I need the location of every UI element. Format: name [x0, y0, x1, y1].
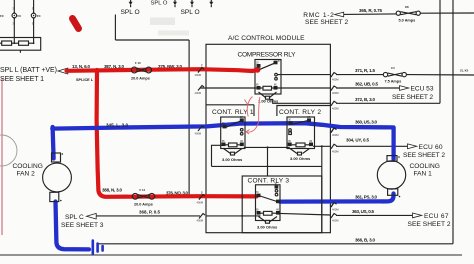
module pin fan relay feed	[199, 195, 205, 200]
resistor R2	[19, 41, 29, 45]
wire connector FC2 to resistor box	[33, 18, 35, 43]
svg-text:F 10: F 10	[135, 61, 141, 65]
inline connector FC1	[12, 13, 17, 18]
relay K3 contact circle 1	[289, 129, 292, 132]
wire SPL C inside module to relay K4 coil	[206, 215, 261, 217]
wire SPL O down to feed	[188, 40, 190, 195]
wire relay2 coil to edge (ECU60 drive)	[313, 145, 330, 147]
relay K1 pin 87	[274, 61, 278, 65]
splice blue marks	[93, 241, 103, 254]
svg-text:21, K5: 21, K5	[460, 69, 469, 73]
wire vertical down module interior	[321, 146, 323, 232]
relay K4 pin 87	[276, 200, 280, 204]
wire blue fan2 bottom to splice	[56, 202, 90, 250]
relay K4 switch blade	[260, 196, 277, 202]
svg-text:ECU 67: ECU 67	[424, 213, 449, 220]
off-page arrow SPL C	[87, 213, 97, 219]
wire from top edge to connector FC1	[13, 0, 15, 13]
junction ground run node	[267, 166, 269, 168]
module pin tick blue right top	[331, 128, 337, 133]
wire fuse C4 off page right	[406, 74, 474, 76]
off-page arrow RMC	[335, 12, 344, 17]
fuse F14	[132, 193, 154, 199]
wire blue relay K4 to fan1 bottom	[280, 194, 394, 202]
wire blue fan2 drop	[53, 127, 54, 159]
wire battery feed red branch to relay K4	[97, 70, 257, 197]
relay K1 box	[255, 60, 281, 95]
relay K2 coil pin 86	[240, 143, 244, 147]
wire SPL O drop vertical	[114, 15, 116, 41]
relay K2 coil pin 85	[222, 143, 226, 147]
relay K4 pin 30	[257, 194, 261, 198]
svg-text:SPL O: SPL O	[151, 0, 168, 6]
module pin coil drive left	[198, 86, 204, 91]
wire coil 85 to module left edge	[200, 87, 257, 89]
svg-text:FAN 1: FAN 1	[414, 171, 433, 178]
module pin tick batt feed	[198, 68, 204, 73]
wire SPL C to module	[96, 215, 200, 217]
module pin 361 blue row	[331, 203, 337, 208]
svg-text:400M: 400M	[332, 219, 339, 223]
svg-text:COMPRESSOR RLY: COMPRESSOR RLY	[238, 52, 297, 59]
svg-text:400M: 400M	[332, 133, 339, 137]
fuse K8	[396, 11, 420, 15]
svg-text:SPL L (BATT +VE): SPL L (BATT +VE)	[0, 67, 57, 74]
svg-text:363, US, 0.5: 363, US, 0.5	[352, 209, 374, 214]
pink scan streak left margin	[1, 78, 3, 235]
svg-text:368, P, 0.5: 368, P, 0.5	[139, 209, 160, 214]
off-page arrow ECU 60	[408, 144, 417, 149]
svg-text:ECU 53: ECU 53	[411, 86, 434, 93]
junction R1-R2 node	[13, 42, 15, 44]
module pin tick fan relay feed	[199, 195, 205, 200]
svg-text:304, UY, 0.5: 304, UY, 0.5	[346, 138, 369, 143]
wire from top edge to connector FC2	[33, 0, 35, 13]
resistor pack box	[0, 38, 41, 51]
sheet bottom border	[0, 254, 462, 256]
svg-text:400M: 400M	[332, 149, 339, 153]
motor M2 body	[43, 163, 72, 192]
wire compressor contact to module edge (371 feed)	[277, 74, 330, 76]
relay K4 top pin square	[275, 185, 279, 188]
svg-text:400M: 400M	[195, 132, 202, 136]
wire 304 to ECU 60	[336, 145, 408, 147]
svg-text:7.5 Amps: 7.5 Amps	[385, 80, 402, 84]
wire SPL O horizontal run	[115, 39, 189, 41]
wire relay1 coil left loop	[212, 145, 222, 166]
svg-text:20.0 Amps: 20.0 Amps	[131, 76, 150, 80]
splice arrow 1	[130, 0, 132, 2]
svg-text:400M: 400M	[332, 91, 339, 95]
module pin SPL C	[199, 214, 205, 219]
relay K1 blade overlay	[260, 63, 276, 70]
svg-text:F 14: F 14	[140, 188, 146, 192]
relay K1 contact 87a circle 1	[275, 73, 278, 76]
svg-text:COOLING: COOLING	[410, 163, 440, 170]
wire blue main run fans-relays	[52, 123, 392, 128]
module pin tick blue right bottom	[331, 203, 337, 208]
relay K4 coil bracket	[259, 217, 278, 222]
module pin 363	[331, 214, 337, 219]
relay K1 coil pin 86	[274, 86, 278, 90]
relay K4 coil pin 85	[257, 211, 261, 215]
svg-text:400M: 400M	[195, 91, 202, 95]
svg-text:388, N, 3.0: 388, N, 3.0	[102, 188, 122, 193]
svg-text:SEE SHEET 2: SEE SHEET 2	[408, 221, 451, 228]
svg-text:400M: 400M	[195, 73, 202, 77]
resistor R1	[2, 41, 12, 45]
svg-text:3.00 Ohms: 3.00 Ohms	[290, 156, 311, 161]
relay K4 coil pin 86	[276, 211, 280, 215]
relay K1 coil	[263, 86, 272, 90]
wire coil interlink relay1-relay2	[244, 146, 290, 148]
svg-text:SPL C: SPL C	[65, 214, 84, 221]
splice arrow 4	[210, 0, 212, 2]
off-page arrow ECU 53	[400, 86, 409, 91]
junction coil interlink node	[267, 146, 269, 148]
annotation red pen arrow at relay K2	[247, 97, 252, 117]
svg-text:A/C CONTROL MODULE: A/C CONTROL MODULE	[228, 35, 305, 42]
svg-text:371, R, 1.5: 371, R, 1.5	[355, 68, 375, 73]
wire RMC to fuse K8	[344, 13, 397, 16]
wire 371 to fuse C4	[336, 74, 383, 76]
wire 362 to ECU 53	[336, 87, 400, 89]
off-page arrow SPL L	[58, 68, 68, 74]
svg-text:K8: K8	[405, 5, 409, 9]
module U1 A/C control module box	[206, 44, 330, 232]
wire blue fan1 drop	[391, 127, 395, 159]
motor M2 bottom brush	[50, 192, 59, 201]
relay K1 coil pin 85	[257, 86, 261, 90]
relay K4 box	[256, 185, 281, 221]
svg-text:1.00 Ohms: 1.00 Ohms	[258, 98, 279, 103]
wire junction down to cross wire	[267, 147, 269, 176]
wire R2 to FC2 drop	[29, 42, 34, 44]
relay K1 contact circle 2	[275, 78, 278, 81]
relay K2 coil bracket	[224, 149, 243, 154]
splice arrow 3	[191, 0, 193, 2]
svg-text:CONT. RLY 3: CONT. RLY 3	[248, 178, 290, 185]
motor M1 body	[377, 161, 405, 189]
svg-text:400M: 400M	[197, 201, 204, 205]
relay K4 contact circle 1	[275, 190, 278, 193]
svg-text:360, US, 3.0: 360, US, 3.0	[355, 119, 377, 124]
motor M1 top brush	[387, 156, 397, 162]
erased watermark smudge	[150, 18, 175, 26]
wire connector FC1 to resistor box	[13, 18, 15, 43]
relay K2 pin 87	[240, 118, 244, 122]
relay K3 pin 87	[307, 118, 311, 122]
svg-text:ECU 60: ECU 60	[419, 144, 443, 151]
wire coil ground run	[212, 165, 322, 167]
module pin tick blue left	[198, 126, 204, 131]
svg-text:3.00 Ohms: 3.00 Ohms	[222, 157, 243, 162]
relay K3 coil	[296, 143, 305, 147]
svg-text:FAN 2: FAN 2	[17, 171, 36, 178]
svg-text:SPLICE L: SPLICE L	[76, 78, 94, 82]
wire battery feed red main	[67, 69, 258, 71]
relay K3 box	[287, 117, 315, 149]
motor M2 top brush	[52, 153, 61, 162]
annotation red marker blob top left	[73, 19, 79, 29]
svg-text:FC: FC	[37, 14, 41, 18]
wire fuse K8 to right bus	[420, 12, 474, 14]
relay K4 contact circle 2	[275, 193, 278, 196]
module pin 371 feed	[331, 73, 337, 78]
svg-text:362, UB, 0.5: 362, UB, 0.5	[355, 81, 378, 86]
svg-text:CONT. RLY 2: CONT. RLY 2	[279, 109, 321, 116]
wire box left to R1	[0, 42, 2, 44]
relay K3 pin 30	[289, 121, 293, 125]
svg-text:5.0 Amps: 5.0 Amps	[399, 19, 416, 23]
svg-text:C4: C4	[391, 66, 395, 70]
relay K2 coil	[229, 143, 238, 147]
wire coil 86 to module right edge	[278, 87, 331, 89]
wire red end dab at relay pin	[255, 67, 261, 73]
wire 363 to ECU 67	[336, 214, 413, 216]
stub below resistor box	[19, 50, 21, 53]
relay K1 pin 30 overlay	[257, 64, 261, 68]
relay K2 pin 30	[223, 125, 227, 129]
svg-text:FC: FC	[18, 14, 22, 18]
relay K3 switch blade	[292, 120, 309, 124]
svg-text:365, R, 0.75: 365, R, 0.75	[359, 8, 382, 13]
wire relay K1 bracket to 372 row	[270, 100, 331, 104]
junction ECU60 drive node	[321, 145, 323, 147]
svg-text:372, B, 3.0: 372, B, 3.0	[355, 97, 375, 102]
svg-text:400M: 400M	[332, 106, 339, 110]
svg-text:SEE SHEET 1: SEE SHEET 1	[0, 76, 44, 83]
motor M2 pin dots	[62, 153, 64, 155]
module pin 304	[331, 144, 337, 149]
junction SPL C wire and sub-box	[241, 215, 243, 217]
stray circle mark left edge	[0, 135, 17, 166]
splice arrow 2	[174, 0, 176, 2]
svg-text:RMC 1-2: RMC 1-2	[303, 12, 334, 19]
svg-text:400M: 400M	[332, 78, 339, 82]
svg-text:400M: 400M	[197, 219, 204, 223]
svg-text:400M: 400M	[332, 208, 339, 212]
svg-text:20.0 Amps: 20.0 Amps	[134, 203, 153, 207]
relay K2 contact circle 1	[240, 129, 243, 132]
svg-text:SEE SHEET 3: SEE SHEET 3	[61, 222, 104, 229]
svg-text:FC: FC	[0, 14, 4, 18]
relay K2 box	[221, 117, 245, 149]
module pin batt feed left edge	[198, 68, 204, 73]
right bus vertical 2	[452, 0, 454, 244]
svg-text:COOLING: COOLING	[13, 163, 43, 170]
relay K4 sub-box CONT RLY 3	[242, 176, 322, 233]
wire 372 ground run to right bus	[336, 102, 440, 104]
module pin 372	[331, 101, 337, 106]
motor M1 pin dots	[398, 156, 400, 158]
relay K3 contact square	[289, 132, 292, 135]
module pin 360 blue row	[331, 128, 337, 133]
junction R2 node	[33, 42, 35, 44]
svg-text:3.00 Ohms: 3.00 Ohms	[257, 225, 278, 230]
motor M1 bottom brush	[388, 189, 398, 196]
wire relay K4 coil 86 to module edge	[280, 213, 330, 215]
relay K3 coil pin 85	[288, 143, 292, 147]
module pin 362	[331, 86, 337, 91]
relay K1 switch blade	[260, 63, 276, 70]
relay K2 contact circle 2	[240, 133, 243, 136]
relay K2 box CONT RLY 1 sub-box	[206, 105, 254, 116]
off-page arrow ECU 67	[413, 213, 422, 218]
fuse F10	[131, 67, 151, 73]
relay K4 coil	[264, 211, 273, 215]
svg-text:345, L, 3.0: 345, L, 3.0	[106, 122, 128, 127]
relay K3 sub-box CONT RLY 2	[277, 106, 331, 117]
relay K1 pin 30	[257, 64, 261, 68]
wire R1 to R2	[12, 42, 19, 44]
svg-text:SPL O: SPL O	[181, 9, 200, 16]
wire ground return 366	[98, 243, 453, 245]
relay K1 pin numbers	[222, 61, 313, 212]
svg-text:SEE SHEET 2: SEE SHEET 2	[305, 19, 349, 26]
svg-text:SEE SHEET 2: SEE SHEET 2	[392, 94, 433, 101]
relay K2 switch blade	[226, 121, 242, 128]
svg-text:13, N, 6.0: 13, N, 6.0	[72, 64, 90, 69]
inline connector FC2	[31, 13, 36, 18]
relay K1 coil bracket	[259, 92, 277, 98]
svg-text:361, PS, 3.0: 361, PS, 3.0	[355, 195, 377, 200]
relay K3 coil pin 86	[309, 143, 313, 147]
fuse C4	[383, 72, 406, 76]
svg-text:366, B, 3.0: 366, B, 3.0	[355, 237, 375, 242]
svg-text:SEE SHEET 2: SEE SHEET 2	[403, 152, 445, 159]
relay K3 coil bracket	[290, 149, 310, 154]
right bus vertical 1	[439, 0, 441, 103]
svg-text:SPL O: SPL O	[121, 9, 140, 16]
